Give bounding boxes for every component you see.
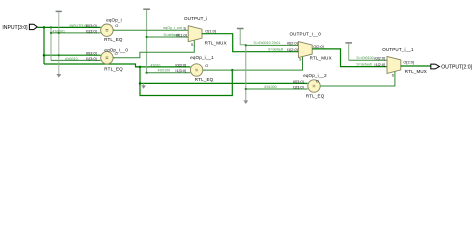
node junction const y37 — [146, 36, 148, 38]
svg-text:O: O — [115, 51, 118, 56]
svg-text:RTL_EQ: RTL_EQ — [306, 93, 325, 98]
op MUX1 OUTPUT_i RTL_MUX — [163, 16, 227, 47]
wire branch to eqOp_i__0 I0 — [44, 54, 101, 56]
svg-text:eqOp_i_out: eqOp_i_out — [163, 26, 182, 30]
wire MUX3 output to OUTPUT port — [401, 65, 431, 67]
wire const to eqOp_i__2 I1 — [246, 88, 308, 90]
constant T-bar driver for MUX2/eqOp_i__2 — [237, 29, 248, 105]
svg-text:I0[1:0]: I0[1:0] — [176, 32, 187, 37]
svg-text:S=4'b0010 2'b01: S=4'b0010 2'b01 — [254, 41, 281, 45]
svg-text:O[1:0]: O[1:0] — [205, 29, 216, 34]
wire const 4'b0001 to eqOp_i I1 — [51, 32, 101, 34]
svg-text:RTL_MUX: RTL_MUX — [205, 40, 227, 45]
input port INPUT[3:0] — [2, 24, 37, 31]
svg-text:S=default: S=default — [268, 48, 283, 52]
svg-text:O: O — [205, 63, 208, 68]
svg-text:I0[3:0]: I0[3:0] — [175, 62, 186, 67]
wire const to MUX2 I0 — [246, 44, 299, 46]
node junction x51 on input wire — [50, 26, 52, 28]
svg-text:eqOp_i__2: eqOp_i__2 — [303, 73, 327, 78]
node junction x140 y66.9 — [139, 66, 142, 69]
node junction x51 y32.9 — [50, 32, 52, 34]
constant T-bar driver for MUX3 I0 — [345, 43, 387, 60]
wire branch to eqOp_i__1 I0 — [136, 66, 191, 68]
wire INPUT bus to eqOp_i I0 — [37, 26, 100, 28]
node junction const eqOp_i__2 I1 — [245, 88, 247, 90]
svg-text:O: O — [115, 23, 118, 28]
svg-text:4'b0001: 4'b0001 — [52, 29, 65, 33]
wire eqOp_i output to MUX1 I0 — [113, 29, 188, 31]
output port OUTPUT[2:0] — [431, 64, 473, 71]
svg-text:RTL_MUX: RTL_MUX — [310, 55, 332, 60]
svg-text:I1[3:0]: I1[3:0] — [86, 28, 97, 33]
svg-text:S: S — [183, 26, 186, 31]
svg-text:INPUT[3:0]: INPUT[3:0] — [70, 24, 88, 28]
svg-text:I0[2:0]: I0[2:0] — [374, 56, 385, 61]
wire branch to eqOp_i__2 I0 — [140, 82, 308, 84]
node junction riser on eqOp_i__1 output — [231, 69, 234, 72]
svg-text:I0[2:0]: I0[2:0] — [287, 40, 298, 45]
svg-text:OUTPUT[2:0]: OUTPUT[2:0] — [441, 65, 472, 71]
svg-text:OUTPUT_i__0: OUTPUT_i__0 — [290, 32, 322, 37]
node junction const MUX2 I0 — [245, 44, 247, 46]
svg-text:O[2:0]: O[2:0] — [313, 44, 324, 49]
svg-text:I1[2:0]: I1[2:0] — [374, 62, 385, 67]
op MUX2 OUTPUT_i__0 RTL_MUX — [254, 32, 332, 62]
wire eqOp_i__2 output to MUX3 S — [320, 71, 395, 86]
node junction INPUT at x44 — [43, 26, 46, 29]
svg-text:INPUT[3:0]: INPUT[3:0] — [2, 25, 28, 31]
svg-text:OUTPUT_i: OUTPUT_i — [184, 16, 207, 21]
node junction T1b corner at eqOp_i__1 I1 — [146, 72, 148, 74]
svg-text:OUTPUT_i__1: OUTPUT_i__1 — [382, 47, 414, 52]
svg-text:O[2:0]: O[2:0] — [403, 60, 414, 65]
wire MUX1 output to MUX2 I1 — [202, 34, 298, 52]
ground arrow stub on eqOp_i__2 I0 branch — [141, 83, 146, 88]
op MUX3 OUTPUT_i__1 RTL_MUX — [356, 47, 427, 78]
wire const branch x51 down to eqOp_i__0 I1 — [50, 27, 52, 60]
wire INPUT trunk bottom run to riser — [44, 64, 232, 96]
svg-text:I1[2:0]: I1[2:0] — [287, 47, 298, 52]
node junction T-bar stem y55.2 — [58, 54, 60, 56]
svg-text:RTL_EQ: RTL_EQ — [104, 66, 123, 71]
svg-text:RTL_EQ: RTL_EQ — [195, 77, 214, 82]
svg-text:I1[3:0]: I1[3:0] — [86, 56, 97, 61]
svg-text:RTL_EQ: RTL_EQ — [104, 37, 123, 42]
svg-text:I0[3:0]: I0[3:0] — [86, 23, 97, 28]
node junction T-bar stem y32.9 — [58, 32, 60, 34]
svg-text:4'b1000: 4'b1000 — [264, 85, 277, 89]
svg-text:S=default: S=default — [356, 63, 371, 67]
constant T-bar driver mid (feeds MUX1 I1 / eqOp_i__1 I1) — [143, 9, 190, 72]
wire INPUT vertical trunk x44 — [43, 27, 45, 64]
eqOp_i RTL_EQ — [52, 18, 123, 42]
svg-text:I0[3:0]: I0[3:0] — [293, 79, 304, 84]
eqOp_i__1 RTL_EQ — [158, 55, 215, 82]
svg-text:I1[3:0]: I1[3:0] — [175, 68, 186, 73]
svg-text:4'b0010: 4'b0010 — [65, 57, 78, 61]
svg-text:4'b0100: 4'b0100 — [158, 69, 171, 73]
svg-text:O: O — [316, 78, 319, 83]
svg-text:S=4'b0100: S=4'b0100 — [356, 56, 373, 60]
wire const branch to MUX1 I1 — [147, 36, 189, 38]
svg-text:RTL_MUX: RTL_MUX — [405, 69, 427, 74]
constant T-bar driver left — [56, 11, 62, 77]
wire eqOp_i__1 output to MUX2 S — [203, 57, 303, 70]
eqOp_i__0 RTL_EQ — [65, 48, 128, 72]
svg-text:eqOp_i__1: eqOp_i__1 — [190, 55, 214, 60]
wire MUX2 output to MUX3 I1 — [312, 49, 387, 67]
svg-text:eqOp_i: eqOp_i — [106, 18, 122, 23]
node junction x140 y83.4 — [139, 82, 142, 85]
eqOp_i__2 RTL_EQ — [264, 73, 327, 99]
node junction x44 y55.2 — [43, 54, 46, 57]
wire eqOp_i__0 output to MUX1 S — [113, 40, 194, 58]
